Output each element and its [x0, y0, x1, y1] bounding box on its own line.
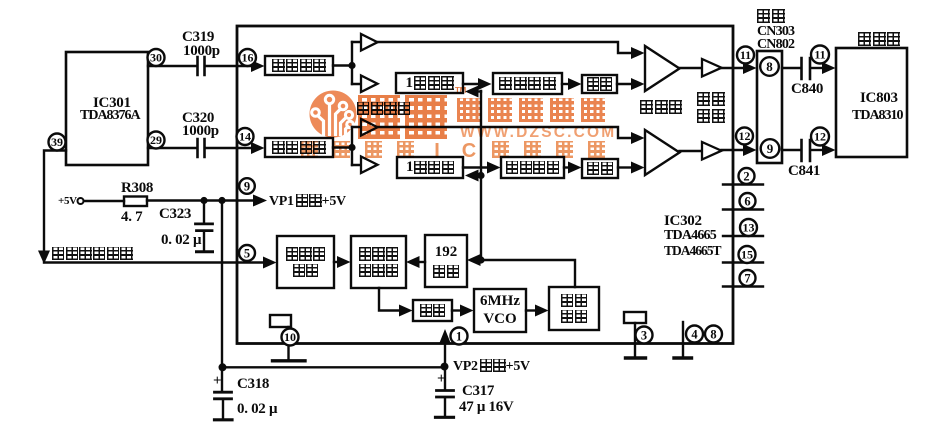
pin 39 — [49, 134, 66, 151]
clock line vertical — [480, 91, 482, 260]
net sandcastle input — [52, 246, 133, 262]
pin 12 left — [736, 128, 753, 145]
adder 1 triangle — [645, 46, 680, 91]
sample-hold 1 box — [493, 73, 562, 94]
text in delay1 — [398, 75, 461, 91]
1-line delay 2 box — [397, 157, 463, 178]
label C323 — [159, 207, 191, 222]
text in clamp1 — [267, 58, 331, 73]
IC301 box — [66, 52, 148, 165]
internal block above pin3 — [624, 312, 646, 323]
svg-text:5: 5 — [244, 246, 250, 260]
wire buffer2 to connector pin9 — [722, 144, 757, 156]
+5V rail bottom — [219, 363, 449, 372]
label connector 插件 — [757, 9, 785, 25]
connector CN303/CN802 — [757, 51, 782, 163]
pin 8 — [705, 326, 722, 343]
svg-text:11: 11 — [740, 48, 751, 62]
wire samplehold1 to lowpass1 — [562, 78, 582, 90]
net VP2 digital +5V — [453, 359, 530, 374]
clock arrow into delay1 — [465, 86, 481, 98]
pin 16 — [239, 49, 256, 66]
label R308 — [121, 181, 153, 196]
divider 192 box — [425, 235, 467, 287]
capacitor C317 — [436, 368, 454, 417]
label C841 — [788, 164, 820, 179]
text in divider 192 — [427, 237, 465, 285]
svg-text:6: 6 — [744, 194, 750, 208]
pin 5 — [239, 245, 255, 261]
svg-text:12: 12 — [739, 129, 751, 143]
pin 12 right — [811, 128, 829, 146]
clock arrow into delay2 — [465, 170, 485, 182]
value 1000p C319 — [183, 44, 220, 59]
wire C319 to pin16 — [206, 60, 265, 72]
wire bypass ch2 — [378, 127, 645, 144]
capacitor C320 — [198, 139, 205, 157]
wire delay1 to samplehold1 — [463, 78, 492, 90]
node C323 — [200, 197, 207, 204]
text in PLL — [415, 302, 450, 319]
wire connector to C841 — [782, 149, 800, 151]
pin 29 — [148, 132, 165, 149]
svg-text:10: 10 — [284, 330, 296, 344]
pin tick 2 — [723, 183, 763, 185]
svg-text:30: 30 — [150, 51, 162, 65]
IC803 box — [836, 48, 907, 157]
wire pin29 to C320 — [148, 147, 196, 149]
amplifier ch2 top — [361, 119, 378, 136]
text in samplehold2 — [503, 159, 562, 176]
pin 14 — [237, 128, 254, 145]
sample-hold 2 box — [501, 157, 564, 178]
value 1000p C320 — [182, 124, 219, 139]
wire doubler to divider192 — [467, 254, 575, 287]
svg-text:11: 11 — [814, 48, 825, 62]
capacitor C319 — [198, 57, 205, 75]
wire clamp1 out to node — [333, 64, 352, 66]
label C318 — [237, 377, 269, 392]
adder 2 triangle — [645, 130, 680, 175]
low-pass 1 box — [582, 75, 617, 93]
label C317 — [462, 384, 494, 399]
pin 11 left — [737, 47, 754, 64]
wire C840 to IC803 pin11 — [811, 62, 836, 74]
wire clamp2 out to node — [333, 146, 352, 148]
capacitor C841 — [802, 140, 811, 161]
freq-phase detector box — [351, 236, 406, 288]
ground pins 4 and 8 — [674, 322, 692, 358]
signal clamp 2 box — [265, 138, 333, 157]
pin 13 — [740, 219, 757, 236]
svg-text:15: 15 — [741, 248, 753, 262]
value 0.02u C318 — [237, 402, 277, 417]
text in lowpass2 — [584, 161, 616, 176]
amplifier ch1 top — [361, 34, 378, 51]
node ch1 split — [348, 42, 361, 84]
wire bypass ch1 — [378, 42, 645, 59]
wire adder2 to buffer2 — [680, 150, 703, 152]
polarity + C318 — [213, 374, 221, 389]
label TDA4665 — [664, 229, 716, 243]
label TDA8310 — [852, 109, 903, 123]
pin 3 — [636, 327, 653, 344]
capacitor C318 — [215, 392, 233, 420]
svg-text:14: 14 — [239, 130, 251, 144]
wire adder1 to buffer1 — [680, 67, 703, 69]
connector pin 9 — [761, 139, 780, 158]
label IC302 — [664, 214, 702, 229]
wire divider192 to freqphase — [406, 256, 425, 268]
svg-text:39: 39 — [51, 135, 63, 149]
IC302 main box — [237, 26, 733, 344]
pin 7 — [740, 270, 756, 286]
node C318 branch — [218, 197, 225, 204]
svg-text:16: 16 — [242, 51, 254, 65]
wire rail to pin1 — [439, 329, 451, 366]
capacitor C323 — [196, 203, 213, 252]
pin 10 — [282, 329, 299, 346]
wire PLL to VCO — [452, 305, 474, 317]
svg-text:8: 8 — [710, 327, 716, 341]
label PIP 画中画 — [858, 32, 900, 48]
svg-text:2: 2 — [743, 169, 749, 183]
value 0.02u C323 — [161, 233, 201, 248]
label CN303 — [757, 25, 794, 39]
wire connector to C840 — [782, 67, 800, 69]
svg-text:3: 3 — [641, 328, 647, 342]
svg-text:4: 4 — [691, 327, 698, 341]
pin tick 15 — [723, 261, 763, 263]
wire to C318 rail — [221, 203, 223, 390]
text in lowpass1 — [584, 77, 615, 91]
label TDA8376A — [80, 109, 140, 123]
wire buffer1 to connector pin8 — [722, 62, 757, 74]
label output buffer — [697, 92, 725, 108]
pin 6 — [740, 193, 756, 209]
svg-text:29: 29 — [150, 133, 162, 147]
svg-text:12: 12 — [814, 130, 826, 144]
frequency doubler box — [549, 287, 599, 330]
svg-text:9: 9 — [244, 179, 250, 193]
label +5V — [58, 196, 77, 207]
value 47u16V — [459, 400, 513, 415]
pin 1 — [451, 328, 468, 345]
label CN802 — [757, 38, 794, 52]
amplifier ch2 bottom — [361, 157, 378, 174]
text in samplehold1 — [495, 75, 560, 92]
label IC301 — [93, 96, 131, 111]
internal block above pin10 — [270, 315, 291, 327]
wire R308 to pin9 — [147, 195, 267, 207]
label adder — [640, 100, 682, 116]
pin tick 6 — [723, 208, 763, 210]
label TDA4665T — [664, 244, 721, 258]
pin 11 right — [811, 46, 829, 64]
connector pin 8 — [760, 57, 779, 76]
value 4.7 — [121, 210, 142, 225]
buffer 1 triangle — [702, 59, 722, 77]
polarity + C317 — [437, 372, 445, 387]
node ch2 split — [348, 127, 361, 165]
amplifier ch1 bottom — [361, 76, 378, 93]
wire delay2 to samplehold2 — [463, 162, 501, 174]
text in doubler — [551, 289, 597, 328]
sandcastle wire to pin5 — [44, 257, 277, 269]
text in delay2 — [399, 159, 461, 176]
text in VCO — [476, 291, 524, 330]
wire samplehold2 to lowpass2 — [564, 162, 582, 174]
label IC803 — [860, 91, 898, 106]
pin 30 — [148, 49, 165, 66]
pin 9 — [239, 178, 255, 194]
wire linedet to freqphase — [334, 256, 351, 268]
wire VCO to doubler — [526, 305, 549, 317]
ground pin10 — [273, 327, 306, 361]
pin 15 — [739, 246, 756, 263]
text in clamp2 — [267, 140, 331, 155]
label C320 — [182, 111, 214, 126]
pin 4 — [686, 326, 703, 343]
svg-text:1: 1 — [456, 329, 462, 343]
svg-text:9: 9 — [767, 141, 774, 156]
text in line pulse detector — [279, 238, 332, 286]
wire pin30 to C319 — [148, 65, 196, 67]
signal clamp 1 box — [265, 56, 333, 75]
svg-text:8: 8 — [766, 59, 773, 74]
+5V terminal — [78, 198, 84, 204]
wire C841 to IC803 pin12 — [811, 144, 836, 156]
wire lowpass1 to adder1 — [617, 78, 645, 90]
text in freq-phase detector — [353, 238, 404, 286]
net VP1 analog +5V — [269, 194, 346, 209]
VCO box — [474, 289, 526, 332]
wire IC301 pin39 drop — [38, 151, 66, 265]
wire freqphase to PLL — [379, 288, 413, 317]
label C840 — [791, 82, 823, 97]
wire C320 to pin14 — [206, 142, 265, 154]
ground pin3 — [626, 323, 646, 358]
svg-text:13: 13 — [743, 221, 755, 235]
line pulse detector box — [277, 236, 334, 288]
svg-text:7: 7 — [744, 271, 750, 285]
pin 2 — [739, 168, 755, 184]
pin tick 7 — [723, 285, 763, 287]
1-line delay 1 box — [396, 73, 463, 93]
low-pass 2 box — [582, 159, 618, 178]
buffer 2 triangle — [702, 142, 722, 160]
PLL lock box — [413, 300, 452, 321]
wire lowpass2 to adder2 — [618, 162, 645, 174]
wire +5V to R308 — [84, 200, 124, 202]
label C319 — [182, 30, 214, 45]
pin tick 13 — [723, 235, 763, 237]
resistor R308 — [124, 197, 147, 207]
capacitor C840 — [802, 58, 811, 79]
label preamp — [357, 101, 410, 117]
